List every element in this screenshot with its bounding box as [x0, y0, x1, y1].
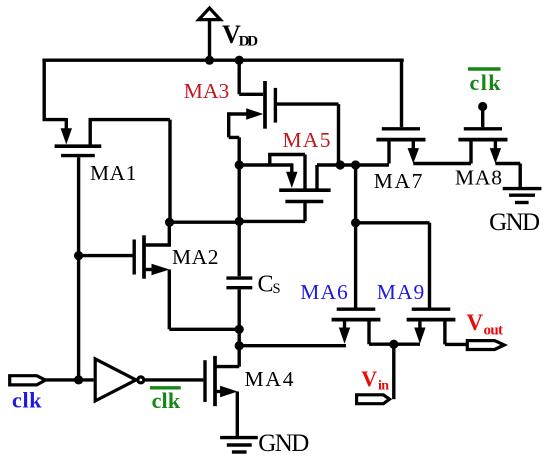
- wire cap bottom to MA4: [237, 290, 240, 367]
- transistor MA9 channel bar: [407, 318, 456, 322]
- wire MA7 source rail to MA8: [413, 141, 471, 164]
- transistor MA3 gate bar: [274, 88, 277, 123]
- label Vin red: [361, 366, 389, 394]
- junction clk node: [74, 375, 83, 384]
- wire MA3 gate to node A: [277, 104, 339, 165]
- ground symbol bottom: [220, 438, 258, 452]
- wire MA9 drain leg to Vout: [445, 320, 467, 345]
- transistor MA9 gate bar: [412, 308, 451, 311]
- wire main vertical node B to cap: [237, 165, 240, 276]
- label VDD: [222, 20, 258, 50]
- terminal dot clkbar: [478, 102, 487, 111]
- junction MA3 gate on node A: [336, 160, 345, 169]
- wire MA4 source to ground: [236, 392, 239, 438]
- svg-text:S: S: [273, 281, 281, 297]
- wire MA3 source loop to node A: [229, 112, 240, 165]
- transistor MA9 source arrow: [418, 322, 421, 329]
- input terminal clk flag: [10, 376, 46, 385]
- wire MA5 drain stub to node A right: [317, 165, 389, 190]
- svg-text:V: V: [467, 310, 484, 335]
- wire MA8 source to ground: [495, 164, 520, 188]
- junction MA6 branch node: [235, 341, 244, 350]
- junction node A branch down: [351, 160, 360, 169]
- transistor MA3 channel bar: [263, 81, 267, 129]
- capacitor CS bottom plate: [226, 286, 252, 289]
- ground symbol right: [503, 189, 542, 203]
- svg-text:MA3: MA3: [184, 79, 230, 103]
- transistor MA2 gate bar: [132, 240, 135, 275]
- svg-text:MA4: MA4: [245, 367, 294, 391]
- transistor MA4 gate bar: [203, 360, 206, 402]
- wire to MA6 source: [239, 344, 346, 347]
- junction MA1/MA2 drain node: [165, 218, 174, 227]
- transistor MA5 gate bar: [285, 200, 323, 203]
- wire MA1 gate stem down to clk node: [77, 157, 80, 380]
- transistor MA1 gate bar: [61, 154, 95, 157]
- svg-text:GND: GND: [489, 209, 540, 236]
- wire VDD top rail: [42, 59, 403, 62]
- wire MA2 gate: [79, 254, 135, 257]
- wire MA1 drain to node: [89, 120, 171, 223]
- wire MA5 gate drop to node B: [239, 202, 305, 222]
- wire node y222: [170, 220, 240, 223]
- wire clk input to inverter: [45, 378, 93, 381]
- wire MA7 gate stem from rail: [400, 60, 403, 127]
- svg-text:out: out: [484, 323, 504, 339]
- junction MA2 source node: [235, 325, 244, 334]
- svg-text:MA1: MA1: [90, 161, 137, 185]
- capacitor CS top plate: [226, 276, 252, 279]
- input terminal Vin flag: [357, 395, 390, 404]
- svg-text:in: in: [378, 379, 389, 394]
- wire clkbar to MA8 gate: [481, 107, 484, 128]
- wire MA2 source down and right to cap node: [169, 270, 239, 330]
- svg-text:MA2: MA2: [172, 245, 219, 269]
- svg-text:MA5: MA5: [283, 128, 331, 152]
- transistor MA6 source arrow: [343, 322, 346, 329]
- svg-text:MA7: MA7: [374, 169, 423, 193]
- wire MA4 drain jog: [215, 365, 239, 368]
- junction gate branch: [351, 218, 360, 227]
- transistor MA7 source arrow: [412, 141, 415, 149]
- transistor MA2 source arrow: [144, 268, 152, 271]
- transistor MA7 channel bar: [376, 138, 425, 142]
- output terminal Vout flag: [467, 341, 504, 350]
- svg-text:MA8: MA8: [455, 166, 502, 190]
- svg-text:GND: GND: [258, 430, 309, 457]
- transistor MA4 channel bar: [213, 356, 217, 406]
- VDD supply symbol (open up-arrow): [199, 8, 221, 60]
- transistor MA6 channel bar: [332, 318, 381, 322]
- svg-text:MA6: MA6: [300, 280, 348, 304]
- transistor MA5 source arrow: [290, 165, 293, 173]
- transistor MA1 source arrow: [65, 118, 68, 129]
- label clkbar green top (overline): [468, 67, 501, 70]
- transistor MA4 source arrow: [215, 390, 221, 393]
- inverter U1: [95, 359, 144, 401]
- transistor MA3 source arrow: [229, 112, 248, 115]
- label clkbar green bottom (overline): [150, 386, 181, 389]
- transistor MA1 channel bar: [55, 144, 102, 148]
- junction node B on main vertical: [235, 217, 244, 226]
- transistor MA8 source arrow: [494, 141, 497, 149]
- label Vout red: [467, 310, 504, 339]
- svg-text:clk: clk: [470, 70, 502, 95]
- svg-text:MA9: MA9: [377, 280, 425, 304]
- wire MA2 drain to node: [144, 222, 169, 247]
- transistor MA2 channel bar: [142, 235, 146, 278]
- transistor MA8 gate bar: [464, 127, 502, 130]
- wire node A down to MA6/MA9 gates: [356, 165, 430, 308]
- label CS: [258, 272, 281, 298]
- wire MA3 drain drop from rail: [239, 60, 263, 94]
- junction MA2 gate tap: [74, 251, 83, 260]
- junction on rail at VDD stem: [205, 56, 214, 65]
- transistor MA8 channel bar: [458, 138, 507, 142]
- junction Vin node: [389, 340, 398, 349]
- wire inverter output to MA4 gate: [145, 378, 204, 381]
- svg-text:DD: DD: [239, 34, 259, 50]
- transistor MA6 gate bar: [337, 308, 376, 311]
- svg-text:clk: clk: [12, 388, 42, 413]
- junction node A left: [235, 160, 244, 169]
- transistor MA7 gate bar: [382, 127, 420, 130]
- wire MA5 bulk loop: [268, 155, 305, 190]
- svg-text:clk: clk: [152, 388, 181, 413]
- wire MA7 drain leg to node A rail: [387, 141, 390, 164]
- transistor MA5 channel bar: [279, 188, 330, 192]
- wire Vin drop: [392, 344, 395, 399]
- svg-text:C: C: [258, 272, 274, 298]
- wire MA6 drain leg to Vin node: [369, 320, 420, 345]
- wire node A rail left segment: [239, 163, 293, 166]
- wire left drop from rail to MA1: [43, 59, 67, 120]
- svg-text:V: V: [361, 366, 377, 391]
- junction on rail at main vertical: [235, 56, 244, 65]
